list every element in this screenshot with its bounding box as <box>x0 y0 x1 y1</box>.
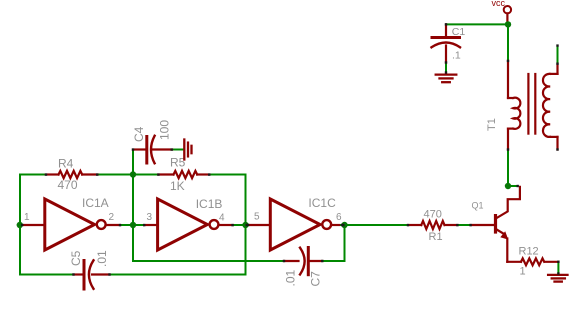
wire: VCC horizontal to C1 <box>446 23 508 25</box>
wire: transformer primary to collector junction <box>507 150 509 187</box>
transformer T1 primary winding <box>508 61 520 150</box>
svg-text:Q1: Q1 <box>472 200 484 210</box>
svg-text:.01: .01 <box>284 269 298 286</box>
pin end marker IC1A output <box>119 224 121 226</box>
pin end marker IC1A input <box>21 224 23 226</box>
pin end marker R5 left <box>157 173 159 175</box>
wire: C4 to ground <box>172 149 184 151</box>
pin end marker Q1 collector <box>517 185 519 187</box>
ground at R12 <box>548 275 567 282</box>
junction at collector node <box>505 183 511 189</box>
svg-text:470: 470 <box>424 208 442 220</box>
pin end marker T1 primary top <box>507 60 509 62</box>
pin end marker IC1C output at junction <box>341 224 345 227</box>
wire: transformer secondary top stub <box>557 46 559 64</box>
svg-text:2: 2 <box>109 212 115 223</box>
junction at IC1A output node <box>130 222 136 228</box>
pin end marker C7 right <box>321 260 323 262</box>
wire: outer bottom left segment to C5 <box>20 274 74 276</box>
wire: VCC down to transformer primary <box>507 24 509 61</box>
capacitor C7 <box>284 248 322 275</box>
wire: left vertical net IN_A <box>19 175 21 275</box>
svg-text:5: 5 <box>254 212 260 223</box>
pin end marker R12 right <box>557 261 559 263</box>
pin end marker Q1 base wire <box>469 224 471 226</box>
transformer T1 core <box>528 74 535 134</box>
wire: R1 to Q1 base <box>457 224 470 226</box>
svg-text:C4: C4 <box>132 126 146 142</box>
wire: inner bottom segment to C7 <box>133 260 284 262</box>
svg-text:4: 4 <box>219 212 225 223</box>
svg-text:C1: C1 <box>452 26 466 38</box>
pin end marker IC1B output <box>231 224 233 226</box>
wire: C4 branch vertical at x=133 <box>132 150 134 262</box>
svg-text:C5: C5 <box>69 250 83 266</box>
wire: pin6 vertical down to C7 <box>344 225 346 261</box>
wire: junction to collector pin <box>508 185 518 187</box>
svg-text:3: 3 <box>147 212 153 223</box>
pin end marker R1 left <box>407 224 409 226</box>
op-amp/inverter IC1C <box>247 199 340 250</box>
wire: IC1C output to R1 <box>339 224 408 226</box>
junction at IC1B output node <box>242 222 248 228</box>
wire: outer bottom C5-to-right segment <box>110 274 246 276</box>
pin end marker T1 secondary wire top <box>556 44 558 46</box>
pin end marker T1 secondary bottom <box>556 148 558 150</box>
pin end marker C5 right <box>108 273 110 275</box>
svg-text:1: 1 <box>520 266 526 278</box>
svg-text:vcc: vcc <box>492 0 506 8</box>
svg-text:.01: .01 <box>95 250 109 267</box>
svg-text:1: 1 <box>24 212 30 223</box>
svg-text:100: 100 <box>158 120 172 140</box>
pin end marker C4 left <box>132 148 134 150</box>
svg-text:6: 6 <box>336 212 342 223</box>
pin end marker C1 top <box>445 23 447 25</box>
capacitor C5 <box>74 260 110 289</box>
junction at IC1A input <box>17 222 23 228</box>
transformer T1 secondary winding <box>543 64 558 150</box>
wire: top feedback left segment <box>20 174 46 176</box>
op-amp/inverter IC1A <box>22 199 120 250</box>
pin end marker IC1B input <box>143 224 145 226</box>
svg-text:IC1C: IC1C <box>308 196 336 210</box>
pin end marker C5 left <box>72 273 74 275</box>
pin end marker R4 left <box>45 173 47 175</box>
pin end marker T1 secondary pin top <box>556 63 558 65</box>
resistor R1 <box>408 221 457 229</box>
wire: top feedback R5-to-right segment <box>209 174 245 176</box>
svg-text:T1: T1 <box>486 118 498 131</box>
pin end marker R4 right <box>96 173 98 175</box>
capacitor C1 <box>432 24 461 62</box>
svg-text:C7: C7 <box>309 271 323 287</box>
wire: C1 to ground <box>445 63 447 73</box>
ground (rotated) at C4 <box>184 140 191 160</box>
svg-text:.1: .1 <box>452 50 461 62</box>
wire: C7 right green segment <box>322 260 344 262</box>
pin end marker IC1C input at junction <box>246 224 250 227</box>
resistor R4 <box>46 171 98 178</box>
transistor Q1 <box>471 187 520 262</box>
resistor R5 <box>158 171 209 178</box>
junction at VCC <box>505 21 511 27</box>
svg-text:R1: R1 <box>429 231 443 243</box>
wire: right vertical net <box>245 175 247 275</box>
pin end marker C1 bottom <box>445 61 447 63</box>
svg-text:IC1B: IC1B <box>196 197 223 211</box>
junction at IC1C output node <box>341 222 347 228</box>
svg-text:R4: R4 <box>58 157 74 171</box>
svg-text:470: 470 <box>58 178 78 192</box>
pin end marker C7 left <box>283 260 285 262</box>
svg-text:1K: 1K <box>170 179 185 193</box>
pin end marker C1 ground wire <box>445 71 447 73</box>
transistor Q1 emitter arrow <box>500 231 508 239</box>
pin end marker C4 right <box>171 148 173 150</box>
power VCC symbol <box>504 6 511 24</box>
svg-text:IC1A: IC1A <box>82 196 109 210</box>
pin end marker R5 right <box>208 173 210 175</box>
wire: top feedback R4-to-junction segment <box>97 174 158 176</box>
pin end marker R12 ground wire <box>557 272 559 274</box>
resistor R12 <box>507 258 558 265</box>
ground at C1 <box>436 75 457 83</box>
junction at top wire / C4 branch <box>130 171 136 177</box>
wire: R12 to ground <box>557 262 559 274</box>
pin end marker T1 primary bottom <box>507 148 509 150</box>
wire: IC1A output to IC1B input <box>120 224 144 226</box>
capacitor C4 <box>133 136 172 164</box>
wire: IC1B output to IC1C input <box>233 224 247 226</box>
pin end marker R1 right <box>456 224 458 226</box>
svg-text:R12: R12 <box>519 245 539 257</box>
op-amp/inverter IC1B <box>144 199 232 250</box>
